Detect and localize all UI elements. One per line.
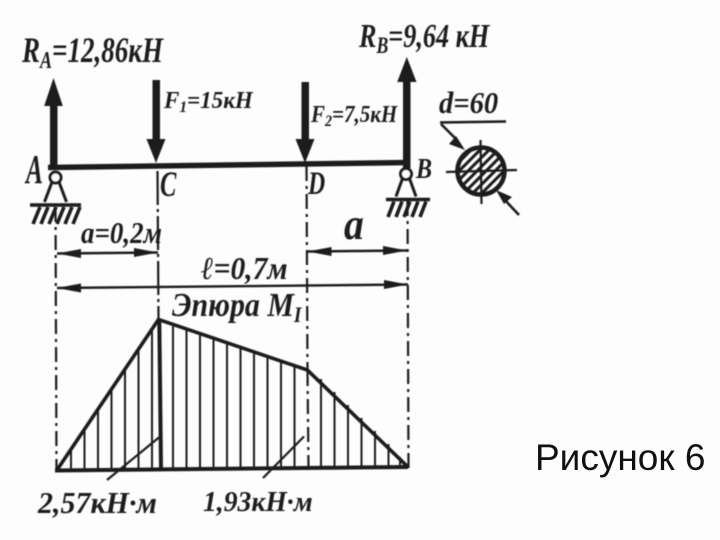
svg-text:1,93кН·м: 1,93кН·м: [203, 487, 313, 518]
svg-text:B: B: [415, 152, 432, 185]
section circle: [458, 148, 505, 195]
ground A: [30, 203, 81, 207]
svg-text:a=0,2м: a=0,2м: [81, 216, 162, 250]
roller support B: [396, 169, 416, 197]
svg-text:D: D: [307, 165, 325, 202]
svg-text:a: a: [344, 201, 364, 249]
svg-text:A: A: [25, 148, 43, 192]
leader to section (upper): [441, 124, 465, 150]
ground hatch B: [388, 202, 426, 218]
reaction arrow RB: [397, 57, 416, 168]
svg-text:Рисунок 6: Рисунок 6: [535, 437, 705, 478]
peak vertical C thick: [159, 320, 161, 469]
svg-text:C: C: [160, 164, 177, 204]
svg-text:ℓ=0,7м: ℓ=0,7м: [201, 251, 288, 286]
force arrow F1: [147, 80, 166, 163]
extension line C (dash-dot): [158, 171, 159, 318]
leader 1,93: [263, 437, 304, 479]
moment diagram baseline: [55, 467, 408, 471]
extension line A (dash-dot): [56, 207, 57, 470]
dimension a=0.2m: [57, 248, 158, 258]
svg-text:F1=15кН: F1=15кН: [163, 88, 253, 116]
extension line B (dash-dot): [408, 201, 409, 468]
svg-text:2,57кН·м: 2,57кН·м: [37, 486, 157, 521]
svg-text:d=60: d=60: [439, 86, 498, 120]
extension line D lower (dash-dot): [308, 371, 309, 468]
d=60 underline: [440, 122, 506, 123]
moment diagram outline: [57, 320, 408, 471]
section centerline horizontal: [446, 170, 517, 172]
ground hatch A: [33, 207, 80, 224]
beam: [48, 163, 408, 168]
svg-text:RB=9,64 кН: RB=9,64 кН: [358, 17, 490, 59]
ground B: [386, 198, 430, 202]
section hatch: [440, 102, 530, 227]
moment diagram hatch: [71, 325, 400, 470]
pin support A: [45, 172, 67, 202]
svg-text:RA=12,86кН: RA=12,86кН: [21, 30, 164, 73]
svg-text:Эпюра MI: Эпюра MI: [172, 285, 302, 327]
leader from section (lower): [496, 190, 519, 215]
svg-text:F2=7,5кН: F2=7,5кН: [310, 101, 399, 131]
dimension a (right): [308, 246, 408, 256]
section centerline vertical: [481, 140, 482, 204]
force arrow F2: [296, 82, 315, 163]
extension line D (dash-dot): [307, 166, 308, 369]
reaction arrow RA: [44, 78, 63, 170]
dimension l=0.7m: [57, 280, 408, 293]
leader 2,57: [107, 437, 160, 480]
